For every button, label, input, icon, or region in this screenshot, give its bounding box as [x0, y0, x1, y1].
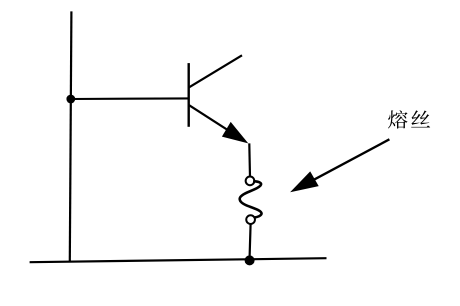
wire: left vertical rail [70, 11, 72, 261]
wire: base wire from node A to transistor Q1 [71, 97, 189, 100]
wire: bottom horizontal bus [30, 258, 327, 262]
wire: fuse bottom to bottom bus [250, 224, 251, 257]
fuse FU: bottom terminal circle [246, 215, 255, 224]
fuse FU: top terminal circle [246, 177, 255, 186]
fuse FU: wavy fusible element [240, 181, 262, 217]
node A: junction dot on left rail [66, 95, 75, 104]
node B: junction dot on bottom bus [245, 255, 255, 265]
wire: emitter to fuse top [248, 143, 251, 176]
transistor Q1: base bar [187, 63, 189, 127]
label: 熔丝 (fuse) text as glyph outlines [388, 110, 430, 128]
annotation arrow pointing at fuse [290, 139, 389, 192]
transistor Q1: collector lead [189, 55, 242, 87]
transistor Q1: emitter lead with arrow [189, 105, 249, 143]
